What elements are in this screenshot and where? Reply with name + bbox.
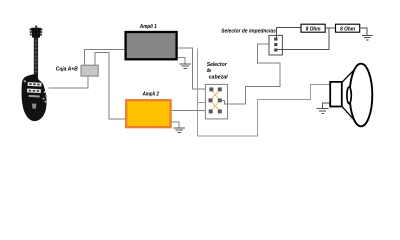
wire Ampli 1 to ground <box>178 58 185 64</box>
wire Ampli 2 output to selector bottom input <box>172 109 209 111</box>
resistor box 8 Ohm (second) <box>336 24 360 32</box>
selector crossing link orange (mid-left to bottom-right) <box>212 102 219 109</box>
wire Ampli 1 output to selector top input <box>178 48 209 89</box>
svg-text:Selector de impedncias: Selector de impedncias <box>221 29 276 35</box>
impedance selector pins (3 squares) <box>274 38 277 52</box>
svg-text:8 Ohm: 8 Ohm <box>306 26 321 32</box>
ground (Ampli 1) <box>180 64 191 69</box>
svg-text:Ampli 2: Ampli 2 <box>142 91 159 97</box>
amplifier Ampli 2 <box>126 100 170 127</box>
selector de cabezal box <box>205 84 227 119</box>
wire selector output staircase to impedance selector <box>222 44 280 104</box>
svg-text:Selector: Selector <box>207 62 228 68</box>
wire branch to selector middle terminal <box>198 102 209 104</box>
wire between 8 Ohm boxes <box>325 27 335 29</box>
selector contact pins (6 squares) <box>209 87 222 113</box>
amplifier Ampli 1 <box>126 32 177 59</box>
wire Caja to Ampli 2 input <box>95 53 125 120</box>
ground (after 8 Ohm) <box>362 35 372 40</box>
ground (speaker) <box>317 108 329 113</box>
wire selector middle terminal to speaker (U route) <box>198 49 331 136</box>
resistor box 8 Ohm (first) <box>301 24 325 32</box>
label Selector de cabezal <box>207 62 228 81</box>
svg-text:cabezal: cabezal <box>209 75 229 81</box>
svg-text:Ampli 1: Ampli 1 <box>139 24 157 30</box>
wire impedance selector top pin to 8 Ohm box 1 <box>277 28 302 38</box>
selector de impedancias box <box>269 35 282 55</box>
speaker <box>330 64 372 127</box>
selector crossing link orange (top-right to mid-left) <box>212 91 219 98</box>
selector crossing link green (top-left to mid-right) <box>213 91 219 98</box>
wire speaker lower terminal to ground <box>323 103 331 108</box>
wire Caja to Ampli 1 input <box>85 49 125 65</box>
wire guitar to Caja A+B <box>49 76 89 88</box>
wire 8 Ohm 2 to ground <box>360 28 367 35</box>
splitter box Caja A+B <box>81 65 98 76</box>
ground (Ampli 2) <box>174 128 185 133</box>
svg-text:8 Ohm: 8 Ohm <box>340 26 355 32</box>
wire impedance selector bottom pin to junction between 8 Ohm boxes <box>277 28 329 49</box>
svg-text:de: de <box>207 68 212 74</box>
selector crossing link green (mid-right to bottom-left) <box>212 102 219 109</box>
guitar (electric guitar clipart) <box>22 26 48 122</box>
wire Ampli 2 to ground <box>172 122 180 128</box>
svg-text:Caja A+B: Caja A+B <box>56 67 78 73</box>
